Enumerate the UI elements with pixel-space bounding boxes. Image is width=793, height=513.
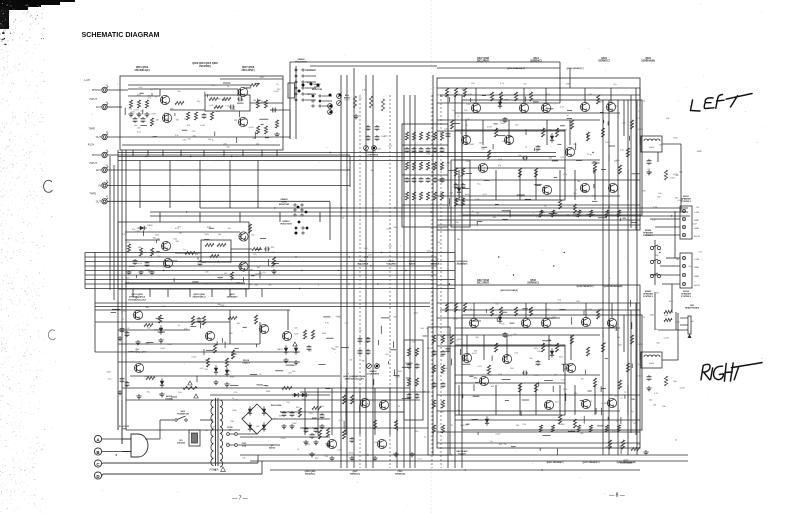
capacitor C703 [321, 413, 323, 415]
wire spk v3 [671, 284, 673, 313]
wire paL r5 [455, 167, 565, 169]
terminal A [94, 435, 101, 442]
transistor Q635 [521, 318, 530, 327]
resistor pa R 18 [450, 335, 453, 344]
capacitor C603 [203, 113, 205, 115]
inductor L601 coil [644, 139, 660, 141]
resistor pa L 21 [570, 120, 573, 129]
resistor paR em4 [605, 425, 608, 432]
resistor tone L5b [440, 162, 443, 170]
wire spk conn1 [680, 210, 681, 212]
svg-text:2.2k: 2.2k [175, 135, 179, 137]
resistor pa L 8 [555, 128, 558, 137]
svg-text:2SC1345(F): 2SC1345(F) [477, 282, 490, 285]
svg-text:100k: 100k [349, 452, 353, 454]
pot MONO [337, 101, 342, 106]
svg-text:0.047: 0.047 [376, 149, 382, 151]
svg-text:TAPE: TAPE [89, 128, 96, 131]
transistor Q651 [161, 241, 170, 250]
svg-text:1k: 1k [563, 180, 565, 182]
resistor pa R 1 [454, 303, 457, 312]
svg-text:10k: 10k [440, 356, 443, 358]
wire paR mv x571 [570, 335, 572, 360]
diode D621 [485, 419, 489, 423]
svg-text:R-CH: R-CH [694, 285, 700, 287]
capacitor C654 [264, 248, 266, 250]
resistor R out R [664, 376, 667, 386]
resistor R606 [186, 112, 189, 120]
svg-text:0.047: 0.047 [160, 348, 166, 350]
speaker system 2 box [680, 253, 692, 288]
svg-text:Q618 2SC1645(F): Q618 2SC1645(F) [500, 289, 518, 292]
switch dot 2 [319, 100, 321, 102]
wire paL r4 [455, 159, 600, 161]
switch contact t1 [312, 100, 314, 102]
resistor R659 [252, 247, 261, 250]
transistor Q613 [541, 103, 550, 112]
resistor R br2 [631, 447, 640, 450]
wire pa R h1 [437, 302, 640, 304]
resistor R614 [256, 126, 259, 134]
wire paL tv x546 [545, 88, 547, 103]
svg-text:0.047: 0.047 [395, 377, 401, 379]
capacitor C672 [367, 337, 369, 339]
svg-text:100k: 100k [573, 214, 577, 216]
svg-text:4.7k: 4.7k [138, 263, 142, 265]
transistor Q609 [471, 103, 480, 112]
svg-text:33k: 33k [176, 241, 179, 243]
transistor Q602 [160, 95, 169, 104]
capacitor tone L2a [455, 183, 457, 185]
svg-text:0.047: 0.047 [462, 359, 468, 361]
resistor VR bal slider [353, 96, 356, 108]
svg-text:GND: GND [694, 276, 699, 278]
svg-text:1k: 1k [122, 319, 124, 321]
resistor pa L 18 [450, 120, 453, 129]
transistor Q641 [607, 318, 616, 327]
svg-text:100k: 100k [292, 423, 296, 425]
svg-text:2.2k: 2.2k [271, 252, 275, 254]
transistor Q655b [607, 398, 616, 407]
diode D604 [262, 425, 266, 429]
diode D603 [248, 425, 252, 429]
svg-text:Q634: Q634 [645, 57, 651, 60]
svg-text:Q653 Q654: Q653 Q654 [193, 293, 205, 296]
wire dropper x224 [223, 150, 225, 157]
wire pa L v2 [623, 100, 625, 136]
wire phones h [658, 329, 688, 331]
wire paR r2 [455, 327, 620, 329]
wire aux L [107, 106, 122, 108]
switch contact rf1b [302, 232, 304, 234]
capacitor C702 [291, 411, 293, 413]
resistor tone L0b [405, 162, 408, 170]
svg-text:D651: D651 [147, 225, 153, 227]
svg-text:2SA866(F): 2SA866(F) [457, 263, 468, 266]
svg-text:10k: 10k [462, 89, 465, 91]
svg-text:0.047: 0.047 [637, 375, 643, 377]
svg-text:2.2k: 2.2k [368, 255, 372, 257]
L-ch preamp inner top rail [128, 88, 160, 90]
capacitor C605 [229, 106, 231, 108]
terminal B [94, 448, 101, 455]
wire ml h6 [95, 321, 230, 323]
resistor tone R6 [441, 335, 444, 343]
svg-text:1k: 1k [490, 441, 492, 443]
svg-text:100k: 100k [605, 142, 609, 144]
capacitor C705 [315, 427, 317, 429]
svg-text:2.2k: 2.2k [653, 206, 657, 208]
transistor Q629 [580, 183, 589, 192]
feedback network box R [201, 240, 231, 262]
wire spk v1 [677, 313, 679, 360]
wire pa R v1 [639, 303, 641, 360]
svg-text:33k: 33k [566, 215, 569, 217]
wire mid bus 2 [85, 261, 455, 263]
wire mid bus 0 [85, 252, 455, 254]
capacitor C601 [134, 117, 136, 119]
wire phono L to preamp [107, 89, 128, 91]
resistor tone L3c [426, 192, 429, 200]
resistor R657 [210, 254, 219, 257]
svg-text:10k: 10k [549, 157, 552, 159]
wire top rail 1 [290, 61, 560, 63]
svg-text:L-CH: L-CH [694, 259, 700, 261]
resistor R660 [272, 257, 275, 266]
pa L inner box 2 [462, 100, 642, 215]
resistor tone R9 [432, 400, 435, 408]
wire dropper2 x140 [139, 161, 141, 209]
svg-text:2SC458LG(F): 2SC458LG(F) [134, 69, 149, 72]
wire spk feed 1 [662, 143, 681, 145]
capacitor C661 [121, 327, 123, 329]
tone control box R [404, 340, 423, 420]
svg-text:2.2k: 2.2k [122, 234, 126, 236]
svg-text:Q617 Q618: Q617 Q618 [477, 280, 490, 282]
svg-text:0.047: 0.047 [649, 315, 655, 317]
resistor R601 [129, 100, 132, 108]
wire conn sw 2 [295, 110, 297, 139]
diode D602 [262, 409, 266, 413]
resistor tone L4b [433, 162, 436, 170]
function switch sub-box [288, 83, 295, 98]
connector J PHONO at y155 [102, 152, 107, 157]
transistor Q604 [162, 113, 171, 122]
ground g2 [138, 112, 140, 114]
svg-text:10k: 10k [179, 232, 182, 234]
wire ml h3 [95, 351, 300, 353]
connector J OUT at y137 [102, 134, 107, 139]
capacitor tone L4b [434, 177, 436, 179]
svg-text:100k: 100k [602, 343, 606, 345]
bridge rectifier D601-D604 [242, 404, 272, 434]
svg-text:10k: 10k [440, 96, 443, 98]
svg-text:SYSTEM 2: SYSTEM 2 [681, 296, 692, 298]
resistor R607 [194, 112, 197, 120]
wire right vertical x637 [636, 100, 638, 455]
ground vr [355, 114, 357, 116]
svg-text:0.047: 0.047 [151, 113, 157, 115]
wire psu top [210, 394, 330, 396]
resistor R613 [264, 100, 267, 108]
svg-text:4.7k: 4.7k [500, 121, 504, 123]
svg-text:LOUDNESS: LOUDNESS [367, 374, 380, 376]
switch contact rt2 [294, 214, 296, 216]
svg-text:BALANCE: BALANCE [358, 263, 369, 266]
resistor pa L 23 [586, 132, 589, 141]
svg-text:PHONO: PHONO [92, 154, 101, 157]
wire dropper x133 [132, 150, 134, 157]
svg-text:10k: 10k [349, 360, 352, 362]
wire bm h4 [240, 436, 330, 438]
svg-text:1k: 1k [525, 147, 527, 149]
wire paL bv x496 [495, 170, 497, 200]
svg-text:100k: 100k [232, 410, 236, 412]
wire bottom bus 4 [103, 473, 262, 475]
pot loudness La [364, 146, 369, 151]
resistor pa L 11 [558, 200, 561, 209]
wire bm h2 [280, 411, 404, 413]
wire bm v x390 [389, 388, 391, 435]
ground psu5 [315, 440, 317, 442]
svg-text:33k: 33k [268, 284, 271, 286]
wire ml h9 [130, 375, 340, 377]
resistor R680 [342, 430, 345, 439]
speaker switch contacts 1 [650, 246, 653, 249]
resistor tone L4 [433, 132, 436, 140]
svg-text:4.7k: 4.7k [628, 209, 632, 211]
capacitor C619 [367, 135, 369, 137]
resistor paL em3 [589, 210, 592, 217]
svg-text:2.2k: 2.2k [522, 424, 526, 426]
resistor R609 [209, 97, 218, 100]
wire spk wire 1 [662, 359, 678, 361]
scan artifact: punch hole mark 1 [44, 180, 53, 192]
inductor L602 box [641, 352, 662, 368]
svg-text:OUT: OUT [96, 200, 102, 203]
svg-text:33k: 33k [176, 120, 179, 122]
wire right vertical x628 [627, 100, 629, 455]
transistor Q652 [163, 258, 172, 267]
svg-text:TAPE: TAPE [281, 201, 287, 204]
transistor Q639 [581, 317, 590, 326]
wire pa L h4 [437, 179, 640, 181]
terminal D [94, 472, 101, 479]
wire paL r8 [437, 224, 640, 226]
diode D622 [498, 317, 502, 321]
transistor Q653b [581, 399, 590, 408]
diode D611 [457, 188, 461, 192]
capacitor C606 [271, 109, 273, 111]
resistor R661b [144, 323, 153, 326]
L-ch preamp outer box [120, 76, 283, 150]
wire bm v x346 [345, 388, 347, 435]
capacitor C704 [305, 427, 307, 429]
wire paR r7 [455, 419, 640, 421]
resistor R704 [282, 386, 292, 389]
svg-text:1k: 1k [590, 154, 592, 156]
wire mid bus 6 [85, 279, 455, 281]
wire tape out R [107, 200, 330, 202]
power switch [175, 419, 177, 421]
transistor Q621 [504, 135, 513, 144]
diode D706 [294, 393, 298, 397]
ground g6 [140, 270, 142, 272]
resistor R615 [264, 126, 267, 134]
warning triangle transformer [221, 467, 226, 471]
svg-text:100k: 100k [465, 194, 469, 196]
switch contact f3b [302, 87, 304, 89]
ground psu4 [305, 440, 307, 442]
wire spk feeds 1 [650, 218, 680, 220]
resistor R668 [225, 358, 228, 367]
wire phono R [107, 154, 350, 156]
wire paR mv x484 [483, 335, 485, 360]
svg-text:100k: 100k [502, 141, 506, 143]
wire mid h extra2 [95, 306, 430, 308]
wire paR bv x520 [519, 385, 521, 415]
connector J PHONO at y90 [102, 87, 107, 92]
wire psu v1 [159, 420, 161, 439]
svg-text:33k: 33k [617, 337, 620, 339]
resistor R612 [256, 100, 259, 108]
wire pa L h3 [437, 119, 600, 121]
svg-text:— 7 —: — 7 — [232, 496, 248, 502]
diode D651 [140, 226, 144, 230]
resistor pa L 15 [626, 148, 629, 157]
wire pa interconnect 2 [630, 310, 632, 433]
resistor R out L [664, 170, 667, 180]
svg-text:2.2k: 2.2k [652, 219, 656, 221]
wire cv top [220, 78, 283, 80]
svg-text:2.2k: 2.2k [594, 311, 598, 313]
transistor Q665 [282, 331, 291, 340]
resistor pa R 10 [534, 383, 537, 392]
wire band v x200 [199, 212, 201, 222]
switch contact rt2b [301, 214, 303, 216]
wire right top v1 [559, 62, 561, 103]
svg-text:0.047: 0.047 [453, 319, 459, 321]
handwritten RIGHT [701, 363, 762, 382]
resistor pa L 14 [601, 128, 604, 137]
svg-text:33k: 33k [447, 163, 450, 165]
wire paL bv x536 [535, 170, 537, 200]
wire right vertical x618 [617, 100, 619, 455]
svg-text:SYSTEM 2: SYSTEM 2 [643, 296, 654, 298]
wire paR bv x536 [535, 385, 537, 415]
wire paL r7 [455, 204, 640, 206]
wire band v x280 [279, 212, 281, 222]
svg-text:5AV60: 5AV60 [269, 446, 276, 449]
capacitor pa L3 [537, 145, 539, 147]
capacitor pa R1 [447, 347, 449, 349]
svg-text:MONITOR: MONITOR [312, 89, 323, 91]
wire preamp v2 [237, 89, 239, 96]
svg-text:+: + [288, 409, 290, 413]
wire spk v2 [674, 211, 676, 258]
resistor pa R 7 [541, 343, 544, 352]
resistor pa L 13 [593, 163, 596, 172]
resistor pa R 0 [445, 303, 448, 312]
wire plug D [103, 473, 262, 475]
capacitor pa R2 [504, 332, 506, 334]
svg-text:0.047: 0.047 [192, 356, 198, 358]
svg-text:BASS: BASS [409, 263, 416, 266]
resistor R604 [150, 118, 153, 126]
transistor Q663 [205, 331, 214, 340]
capacitor C665 [198, 317, 200, 319]
svg-text:100k: 100k [414, 312, 418, 314]
svg-text:100k: 100k [444, 128, 448, 130]
wire mid bus 7 [85, 283, 437, 285]
ground g15 [215, 380, 217, 382]
wire bm v x305 [304, 388, 306, 435]
ground psu2 [291, 424, 293, 426]
svg-text:GND: GND [694, 220, 699, 222]
svg-text:VOLUME: VOLUME [386, 264, 396, 266]
svg-text:10k: 10k [656, 292, 659, 294]
wire ml h4 [122, 387, 410, 389]
ground g18 [295, 360, 297, 362]
resistor R675 [342, 395, 345, 404]
svg-text:0.047: 0.047 [680, 387, 686, 389]
wire control vertical x462 [461, 95, 463, 468]
svg-text:10k: 10k [307, 444, 310, 446]
wire paR tv x586 [585, 303, 587, 318]
resistor VR vol slider [369, 96, 372, 108]
wire ml h5 [126, 399, 420, 401]
capacitor C664 [126, 381, 128, 383]
wire dropper3 x150 [149, 289, 151, 297]
svg-text:33k: 33k [666, 118, 669, 120]
wire bus h6 [150, 215, 690, 217]
resistor paL em2 [577, 210, 580, 217]
capacitor C676 [351, 437, 353, 439]
ground g10 [137, 340, 139, 342]
svg-text:10k: 10k [242, 418, 245, 420]
fuse F103 contacts [227, 444, 230, 447]
resistor pa L 17 [487, 150, 490, 159]
svg-text:0.047: 0.047 [487, 127, 493, 129]
scan artifact: top black bar [0, 0, 41, 7]
switch contact t0b [319, 95, 321, 97]
wire spk drop L [680, 144, 682, 211]
pa L inner box 1 [455, 130, 565, 200]
resistor tone R5 [432, 335, 435, 343]
switch contact f0b [302, 69, 304, 71]
wire paR bv x496 [495, 385, 497, 415]
transistor Q669 [379, 400, 388, 409]
svg-text:Q624: Q624 [601, 57, 607, 60]
svg-text:0.047: 0.047 [374, 211, 380, 213]
svg-text:2.2k: 2.2k [337, 449, 341, 451]
AC plug [131, 434, 148, 457]
wire bottom bus 5 [257, 455, 259, 463]
capacitor tone L2b [420, 177, 422, 179]
tape monitor stubs [322, 95, 332, 97]
svg-text:2SC1345(F): 2SC1345(F) [241, 69, 254, 72]
connector J AUX at y107 [102, 104, 107, 109]
capacitor pa L1 [447, 132, 449, 134]
resistor R653 [150, 248, 153, 256]
wire out L v [657, 152, 659, 162]
svg-text:0.047: 0.047 [239, 100, 245, 102]
wire paL r2 [455, 112, 620, 114]
resistor R603 [145, 100, 148, 108]
wire ml v1 [94, 252, 96, 310]
resistor paR em3 [589, 425, 592, 432]
wire bottom bus 6 [261, 461, 263, 474]
